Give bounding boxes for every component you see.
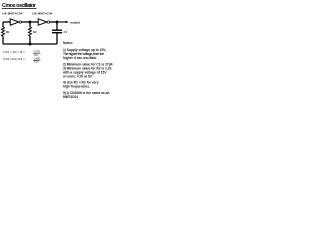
- svg-text:RC: RC: [34, 54, 38, 57]
- node A junction dot: [29, 21, 32, 24]
- inverter U2 output bubble: [47, 21, 49, 23]
- wire U1 output to U2 input: [21, 21, 38, 23]
- svg-text:C1: C1: [64, 30, 68, 34]
- wire output lead: [57, 21, 67, 23]
- inverter U1: [10, 19, 19, 25]
- svg-text:f =: f =: [22, 57, 26, 61]
- resistor R1: [2, 27, 5, 36]
- svg-text:If R1 = R2 = R: If R1 = R2 = R: [3, 50, 22, 54]
- svg-text:output: output: [70, 20, 81, 24]
- output arrowhead: [66, 21, 69, 23]
- formula 2 fraction bar: [33, 59, 41, 61]
- svg-text:If R2 (10×) R1: If R2 (10×) R1: [3, 57, 22, 61]
- bottom rail junction dot: [29, 43, 32, 46]
- svg-text:MM74C04: MM74C04: [63, 95, 78, 99]
- svg-text:R2C: R2C: [34, 61, 39, 64]
- inverter U1 output bubble: [19, 21, 21, 23]
- svg-text:higher it can oscillate.: higher it can oscillate.: [63, 56, 97, 60]
- svg-text:f =: f =: [22, 50, 26, 54]
- formula 1 fraction bar: [33, 52, 41, 54]
- svg-text:or more, 4.7k at 5V.: or more, 4.7k at 5V.: [63, 75, 93, 79]
- wire capacitor top lead: [56, 22, 58, 30]
- inverter U2: [38, 19, 47, 25]
- wire U2 output to output node: [49, 21, 57, 23]
- wire R2 branch top: [29, 22, 31, 27]
- output node junction dot: [56, 21, 59, 24]
- wire capacitor bottom lead: [56, 33, 58, 44]
- wire bottom rail: [3, 43, 57, 45]
- svg-text:R1: R1: [6, 30, 10, 34]
- wire left branch bottom: [2, 36, 4, 44]
- resistor R2: [29, 27, 32, 36]
- svg-text:1/6 MM74C04: 1/6 MM74C04: [2, 12, 23, 16]
- svg-text:high frequencies.: high frequencies.: [63, 85, 90, 89]
- svg-text:1/6 MM74C04: 1/6 MM74C04: [32, 12, 53, 16]
- wire R2 branch bottom: [29, 36, 31, 44]
- capacitor C1: [52, 30, 62, 33]
- svg-text:R2: R2: [33, 30, 37, 34]
- svg-text:Notes:: Notes:: [63, 41, 73, 45]
- wire input node to inverter 1: [3, 21, 10, 23]
- wire left branch top: [2, 22, 4, 27]
